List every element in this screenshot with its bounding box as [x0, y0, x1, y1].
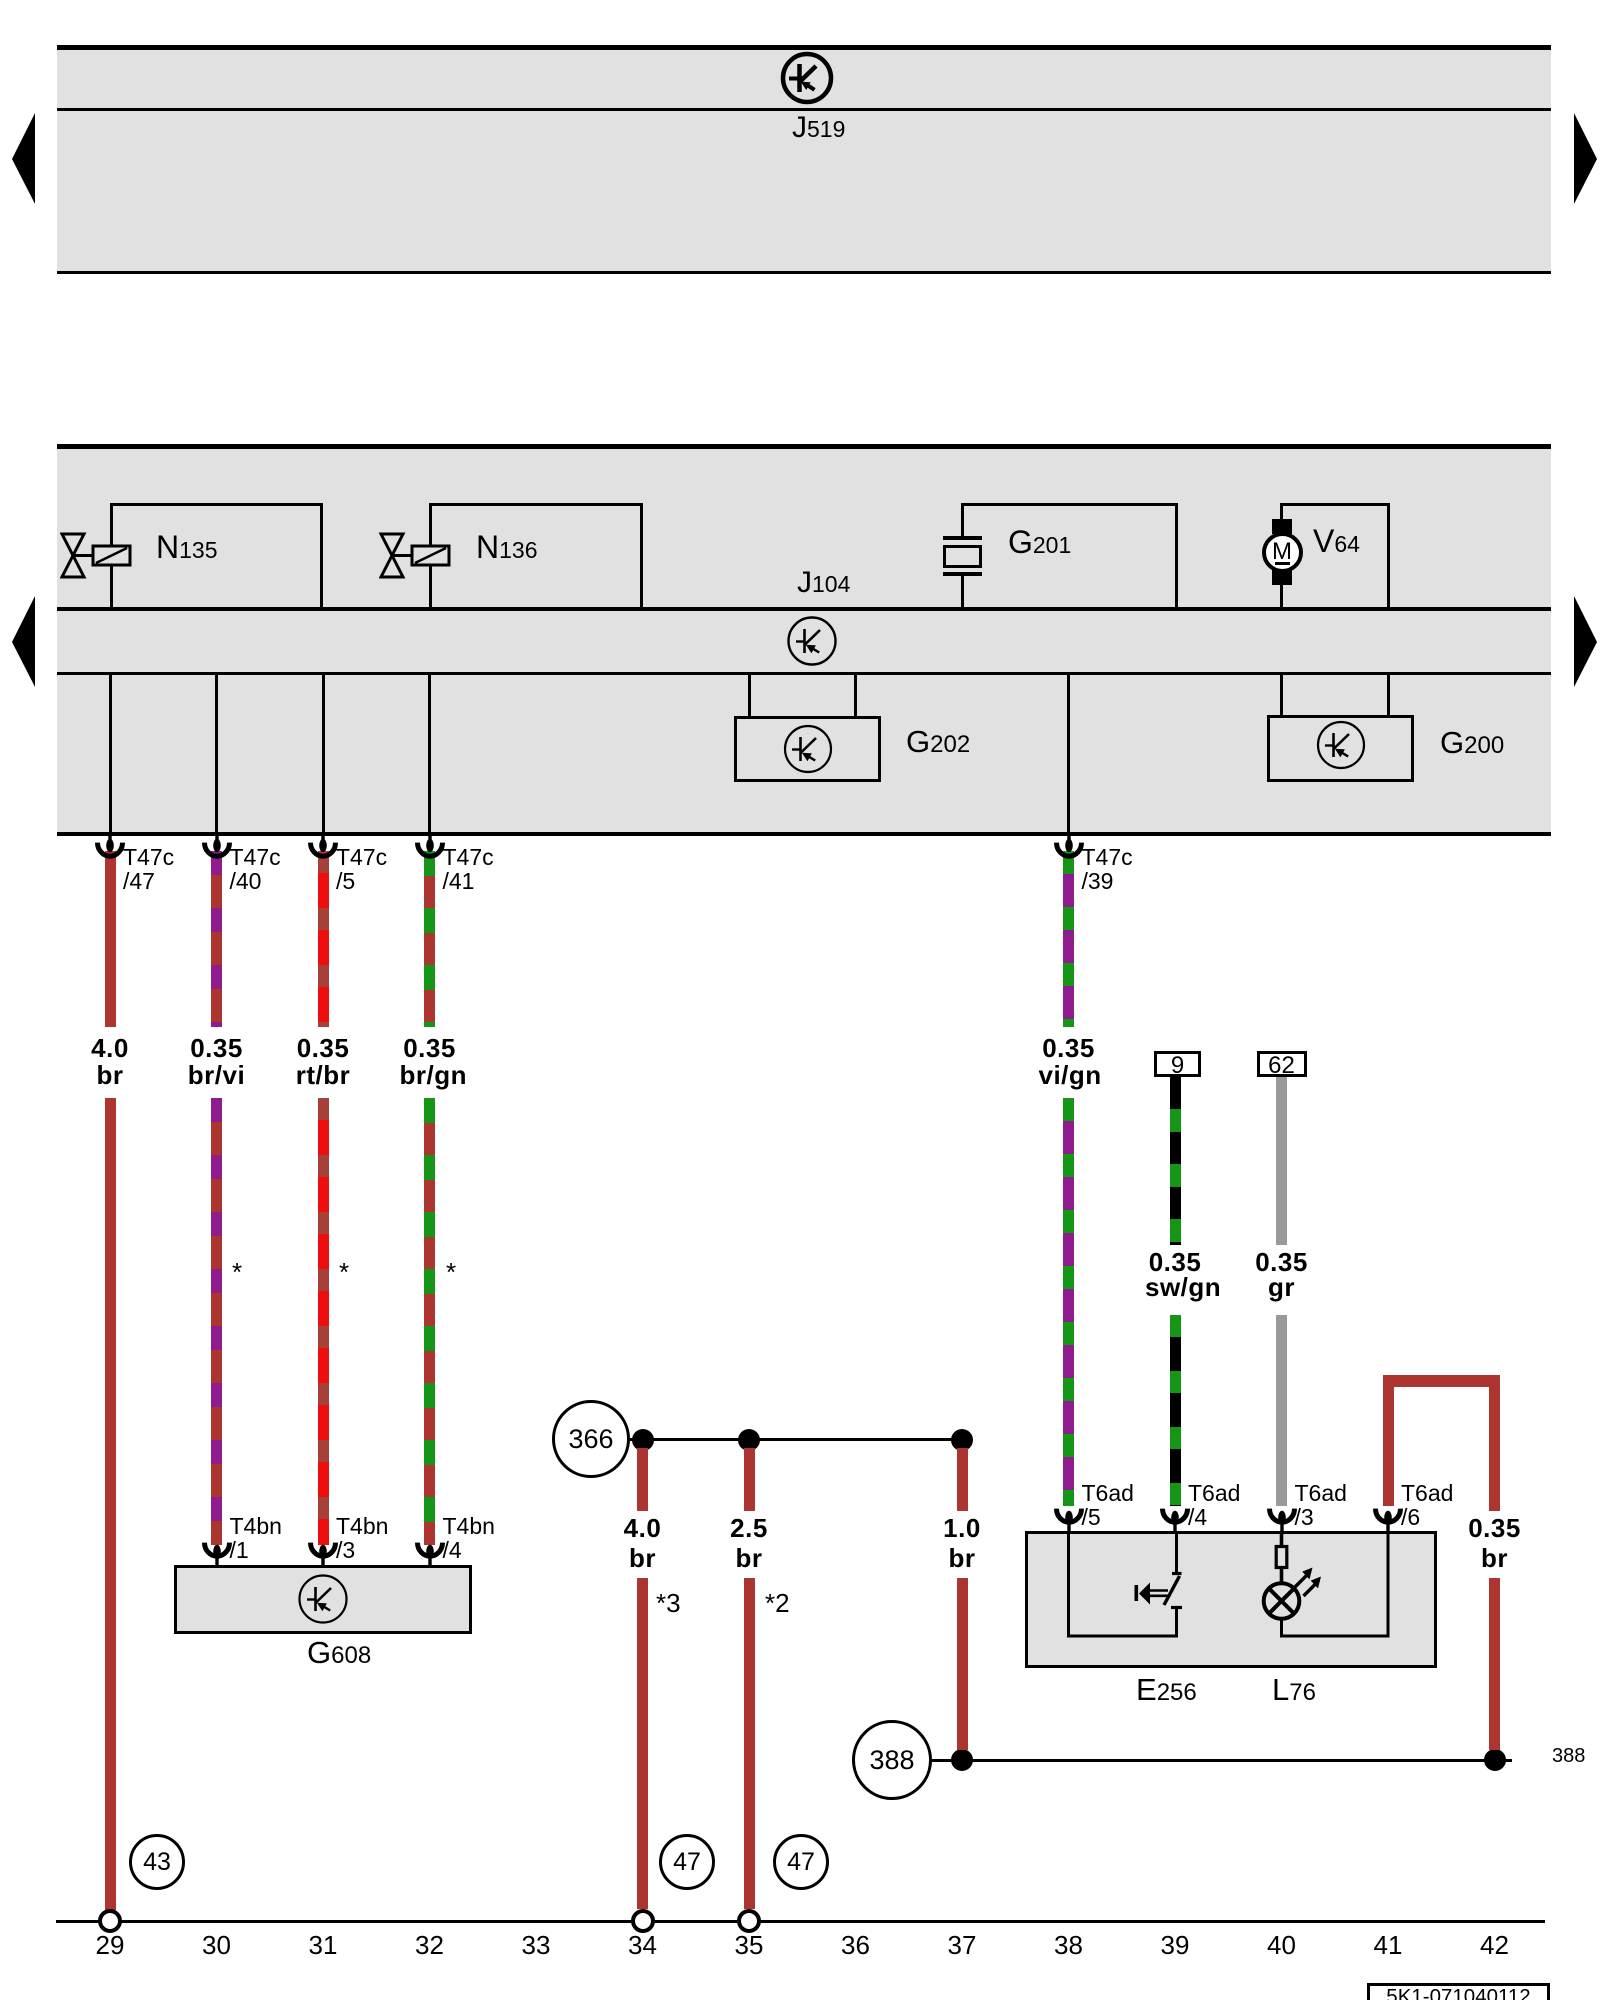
node circle 388	[852, 1720, 932, 1800]
connector T6ad/6	[1371, 1502, 1405, 1532]
wire: lamp to /6 internal lead	[1282, 1531, 1389, 1636]
junction dot track 35	[738, 1429, 760, 1451]
wire 0.35 br/vi (track 30) lower segment	[211, 1098, 222, 1545]
ground terminal circle track 34	[631, 1909, 655, 1933]
switch E256 actuation arrow stop bar	[1135, 1585, 1139, 1601]
connector T4bn/1	[200, 1536, 234, 1566]
wire 0.35 gr (track 40) lower segment	[1276, 1315, 1287, 1506]
connector T4bn/4	[413, 1536, 447, 1566]
left continuation arrow (top band)	[10, 111, 37, 206]
label L76	[1272, 1674, 1316, 1705]
wire: G201 loop right vertical	[1175, 503, 1178, 607]
node circle 47 (track 34)	[659, 1834, 715, 1890]
label E256	[1136, 1674, 1197, 1705]
switch E256 actuation arrow double lines	[1150, 1589, 1169, 1592]
wire 4.0 br (track 29) upper segment	[105, 851, 116, 1027]
wire: pin lead T47c/5 inside band	[322, 675, 325, 835]
wire: pin lead T47c/39 inside band	[1067, 675, 1070, 835]
switch E256 and lamp L76 internals	[1025, 1531, 1437, 1668]
wire 0.35 gr (track 40) upper segment	[1276, 1077, 1287, 1245]
control-unit symbol (circle K) of G202	[782, 723, 834, 775]
connector T47c/47	[93, 836, 127, 860]
switch E256 actuation arrow head	[1139, 1583, 1150, 1605]
control unit J104 band	[57, 444, 1551, 835]
wire 0.35 br loop right vertical upper	[1489, 1381, 1500, 1511]
switch E256 top tick	[1172, 1572, 1182, 1575]
lamp L76 bulb symbol	[1264, 1583, 1300, 1619]
lamp L76 ballast resistor	[1276, 1547, 1287, 1568]
label N135	[156, 531, 217, 563]
note *3	[656, 1590, 681, 1616]
wire: V64 loop right vertical	[1387, 503, 1390, 607]
wire: G201 top stub	[961, 503, 964, 537]
control-unit symbol (circle K) of J104	[786, 615, 838, 667]
node circle 366	[552, 1400, 630, 1478]
wire: G201 bottom stub	[961, 576, 964, 609]
ground terminal circle track 35	[737, 1909, 761, 1933]
label 388 right margin	[1552, 1746, 1585, 1766]
label G201	[1008, 526, 1071, 558]
valve N135 valve symbol	[60, 532, 135, 579]
switch E256 lower contact tick	[1171, 1606, 1182, 1609]
control unit J519 band	[57, 45, 1551, 274]
control-unit symbol (circle K) of G608	[297, 1573, 349, 1625]
sensor G202 box	[734, 716, 881, 782]
junction dot track 34	[632, 1429, 654, 1451]
junction dot 388/track 37	[951, 1749, 973, 1771]
label G200	[1440, 727, 1504, 758]
wire: J104 band lower inner line	[57, 672, 1551, 675]
node circle 43	[129, 1834, 185, 1890]
asterisk note wire 32	[446, 1259, 456, 1285]
lamp L76 light rays	[1295, 1575, 1307, 1587]
wire 0.35 vi/gn (track 38) lower segment	[1063, 1098, 1074, 1506]
diagram number box 5K1-071040112	[1367, 1983, 1550, 2000]
note *2	[765, 1590, 790, 1616]
connector T47c/40	[200, 836, 234, 860]
wire: J104 band bottom border	[57, 832, 1551, 836]
switch E256 lever	[1164, 1576, 1180, 1605]
ground terminal circle track 29	[98, 1909, 122, 1933]
motor V64 loop wire	[1282, 503, 1390, 506]
wire 0.35 sw/gn (track 39) upper segment	[1170, 1077, 1181, 1245]
connector T6ad/3	[1265, 1502, 1299, 1532]
connector T6ad/4	[1158, 1502, 1192, 1532]
wire: V64 bottom stub	[1280, 583, 1283, 609]
sensor G608 box	[174, 1565, 472, 1634]
left continuation arrow (middle band)	[10, 594, 37, 689]
control-unit symbol (circle K) of G200	[1315, 719, 1367, 771]
connector T6ad/5	[1052, 1502, 1086, 1532]
wire: /4 internal lead	[1175, 1531, 1178, 1573]
wire 0.35 br/gn (track 32) upper segment	[424, 851, 435, 1027]
valve N135 box outline	[110, 503, 323, 607]
wire 0.35 vi/gn (track 38) upper segment	[1063, 851, 1074, 1027]
wire: /5 internal lead	[1069, 1531, 1177, 1636]
right continuation arrow (top band)	[1572, 111, 1599, 206]
wire: pin lead T47c/40 inside band	[215, 675, 218, 835]
wire 0.35 rt/br (track 31) lower segment	[318, 1098, 329, 1545]
connector T47c/5	[306, 836, 340, 860]
track numbers	[80, 1932, 140, 1958]
wire: bottom rail	[56, 1920, 1545, 1923]
connector T47c/39	[1052, 836, 1086, 860]
sensor G201 loop wire	[962, 503, 1178, 506]
sensor G200 box	[1267, 715, 1414, 782]
node circle 47 (track 35)	[773, 1834, 829, 1890]
valve N136 valve symbol	[379, 532, 454, 579]
wire: pin lead T47c/41 inside band	[428, 675, 431, 835]
sensor G200 stub wires	[1280, 675, 1283, 717]
wire 0.35 br loop left vertical	[1383, 1381, 1394, 1506]
control-unit symbol (circle K) of J519	[779, 50, 835, 106]
valve N136 box outline	[429, 503, 643, 607]
label N136	[476, 531, 537, 563]
label G608	[307, 1637, 371, 1668]
right continuation arrow (middle band)	[1572, 594, 1599, 689]
wire: pin lead T47c/47 inside band	[109, 675, 112, 835]
wire 4.0 br (track 29) lower segment	[105, 1098, 116, 1910]
wire: 388 ground rail	[932, 1759, 1512, 1762]
wire: J104 band upper inner line	[57, 607, 1551, 611]
wire 0.35 br/vi (track 30) upper segment	[211, 851, 222, 1027]
terminal box 9	[1154, 1051, 1201, 1077]
motor V64 symbol	[1272, 519, 1292, 534]
wire 0.35 br loop top	[1383, 1375, 1501, 1387]
label G202	[906, 726, 970, 757]
wire: J519 band inner line	[57, 108, 1551, 111]
asterisk note wire 30	[232, 1259, 242, 1285]
wire 0.35 rt/br (track 31) upper segment	[318, 851, 329, 1027]
wire 1.0 br (track 37) lower segment	[957, 1578, 968, 1750]
label V64	[1313, 525, 1360, 557]
junction dot track 37	[951, 1429, 973, 1451]
wire 2.5 br (track 35) upper segment	[744, 1448, 755, 1511]
label J519	[792, 113, 845, 143]
asterisk note wire 31	[339, 1259, 349, 1285]
wire: J519 band bottom border	[57, 271, 1551, 274]
wire: link line from 366 to junctions	[630, 1438, 962, 1441]
wire: J104 band top border	[57, 444, 1551, 449]
wire 0.35 sw/gn (track 39) lower segment	[1170, 1315, 1181, 1506]
wire: V64 top stub	[1280, 503, 1283, 521]
wire 1.0 br (track 37) upper segment	[957, 1448, 968, 1511]
wire 2.5 br (track 35) lower segment	[744, 1578, 755, 1909]
wire 4.0 br (track 34) lower segment	[637, 1578, 648, 1909]
connector T4bn/3	[306, 1536, 340, 1566]
wire: /3 internal lead to lamp	[1280, 1531, 1284, 1548]
wire 0.35 br loop right vertical lower	[1489, 1578, 1500, 1750]
sensor G202 stub wires	[748, 675, 751, 718]
wire 4.0 br (track 34) upper segment	[637, 1448, 648, 1511]
switch/lamp unit E256+L76 box	[1025, 1531, 1437, 1668]
terminal box 62	[1257, 1051, 1307, 1077]
junction dot 388/track 42	[1484, 1749, 1506, 1771]
sensor G201 symbol (pressure sender)	[943, 536, 982, 540]
label J104	[797, 568, 850, 598]
wire 0.35 br/gn (track 32) lower segment	[424, 1098, 435, 1545]
wire: J519 band top border	[57, 45, 1551, 50]
connector T47c/41	[413, 836, 447, 860]
